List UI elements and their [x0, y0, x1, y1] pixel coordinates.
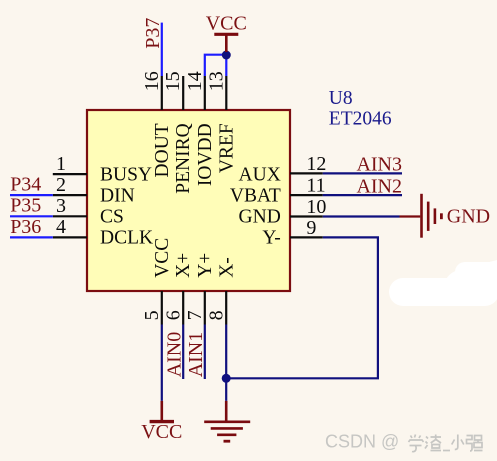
svg-text:VCC: VCC — [206, 13, 247, 35]
svg-text:VREF: VREF — [216, 123, 237, 173]
pin 11 stub — [290, 194, 323, 196]
svg-text:DCLK: DCLK — [100, 228, 153, 249]
ground earth symbol bottom — [204, 401, 250, 441]
svg-text:IOVDD: IOVDD — [195, 123, 216, 186]
svg-text:VCC: VCC — [141, 421, 182, 443]
wire pin8 down to ground — [225, 325, 227, 401]
svg-text:BUSY: BUSY — [100, 164, 152, 185]
svg-text:DOUT: DOUT — [152, 123, 173, 177]
svg-text:X-: X- — [216, 257, 237, 278]
junction dot top — [222, 51, 231, 60]
watermark hanzi qiang — [467, 436, 483, 452]
svg-text:VBAT: VBAT — [230, 185, 281, 206]
pin 15 stub — [182, 76, 184, 110]
power VCC top symbol — [214, 34, 238, 52]
watermark hanzi xue — [409, 435, 424, 452]
svg-text:3: 3 — [56, 195, 66, 217]
svg-text:14: 14 — [184, 71, 206, 91]
white erased patch — [389, 260, 497, 306]
svg-text:Y-: Y- — [262, 228, 280, 249]
pin 13 stub — [225, 76, 227, 110]
pin 2 stub — [53, 194, 87, 196]
svg-text:4: 4 — [56, 216, 66, 238]
wire net P36 — [10, 236, 53, 238]
wire pin9 loop to bottom junction — [230, 237, 378, 378]
pin 4 stub — [53, 236, 87, 238]
svg-text:P35: P35 — [10, 195, 41, 217]
wire net P35 — [10, 215, 53, 217]
wire pin13 to VCC — [225, 55, 227, 76]
pin 16 stub — [161, 76, 163, 110]
watermark hanzi xiao — [452, 435, 464, 450]
svg-text:13: 13 — [205, 71, 227, 91]
wire net AIN0 — [182, 325, 184, 380]
svg-text:U8: U8 — [329, 88, 353, 109]
svg-text:5: 5 — [141, 310, 163, 320]
ground GND symbol right — [400, 194, 442, 238]
chip U8 body — [87, 110, 290, 291]
pin 9 stub — [290, 236, 323, 238]
svg-text:PENIRQ: PENIRQ — [173, 123, 194, 193]
svg-text:GND: GND — [239, 207, 281, 228]
wire pin14 to VCC — [205, 55, 227, 76]
svg-text:Y+: Y+ — [195, 253, 216, 278]
wire net AIN2 — [323, 194, 402, 196]
wire net AIN3 — [323, 172, 402, 174]
svg-text:ET2046: ET2046 — [329, 109, 392, 130]
svg-text:P37: P37 — [142, 18, 164, 49]
pin 10 stub — [290, 215, 323, 217]
wire pin5 to VCC bottom — [161, 325, 163, 401]
wire pin10 to GND — [323, 215, 400, 217]
junction dot bottom — [222, 374, 231, 383]
svg-text:VCC: VCC — [152, 238, 173, 278]
watermark underscore — [443, 450, 450, 452]
svg-text:6: 6 — [163, 310, 185, 320]
svg-text:X+: X+ — [173, 253, 194, 278]
svg-text:11: 11 — [306, 175, 325, 197]
wire net P34 — [10, 194, 53, 196]
pin 5 stub — [161, 291, 163, 325]
pin 14 stub — [204, 76, 206, 110]
svg-text:DIN: DIN — [100, 185, 135, 206]
svg-text:10: 10 — [306, 196, 326, 218]
svg-text:1: 1 — [56, 153, 66, 175]
watermark hanzi zha — [425, 435, 441, 451]
svg-text:GND: GND — [447, 206, 490, 228]
pin 7 stub — [204, 291, 206, 325]
svg-text:2: 2 — [56, 174, 66, 196]
svg-text:15: 15 — [162, 71, 184, 91]
pin 3 stub — [53, 215, 87, 217]
svg-text:CS: CS — [100, 207, 124, 228]
pin 8 stub — [225, 291, 227, 325]
svg-text:P36: P36 — [10, 216, 41, 238]
svg-text:P34: P34 — [10, 174, 41, 196]
svg-text:AIN0: AIN0 — [163, 332, 185, 378]
svg-text:AIN3: AIN3 — [356, 153, 402, 175]
svg-text:AIN2: AIN2 — [356, 176, 402, 198]
power VCC bottom symbol — [150, 401, 174, 422]
wire net P37 — [161, 23, 163, 76]
svg-text:16: 16 — [141, 71, 163, 91]
pin 12 stub — [290, 172, 323, 174]
svg-text:AUX: AUX — [239, 164, 281, 185]
pin 6 stub — [182, 291, 184, 325]
wire net AIN1 — [204, 325, 206, 380]
svg-text:AIN1: AIN1 — [185, 332, 207, 378]
svg-text:CSDN @: CSDN @ — [325, 432, 399, 452]
pin 1 stub — [53, 173, 87, 175]
svg-text:9: 9 — [306, 217, 316, 239]
svg-text:8: 8 — [206, 310, 228, 320]
svg-text:12: 12 — [306, 153, 326, 175]
svg-text:7: 7 — [184, 310, 206, 320]
